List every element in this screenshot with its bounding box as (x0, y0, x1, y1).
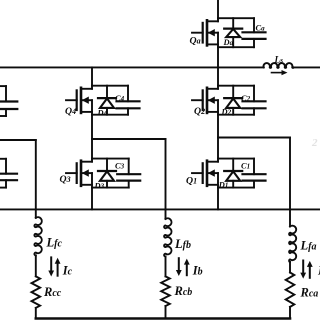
svg-text:Rcc: Rcc (43, 285, 62, 299)
wire cell Q1 top rail (218, 158, 254, 160)
svg-text:C1: C1 (241, 162, 250, 171)
wire Qa drain to top edge (217, 0, 219, 18)
current arrow Ib up (184, 259, 190, 276)
capacitor left lower (partial) (0, 159, 17, 188)
wire Lfb to Rcb (165, 257, 167, 277)
diode D4 (98, 86, 116, 115)
svg-text:Lfc: Lfc (46, 235, 63, 249)
wire left upper cell bottom rail (0, 115, 6, 117)
wire phase a (218, 138, 290, 227)
wire neutral rail (36, 317, 290, 320)
svg-text:Q1: Q1 (186, 175, 197, 186)
label D3 (94, 182, 105, 191)
label Q2 (194, 106, 205, 117)
svg-text:Q4: Q4 (65, 106, 76, 117)
svg-text:C3: C3 (115, 162, 125, 171)
svg-text:D1: D1 (218, 181, 229, 190)
wire left lower cell bottom rail (0, 187, 6, 189)
svg-text:Qa: Qa (190, 36, 201, 47)
svg-text:Lfa: Lfa (300, 238, 317, 252)
wire cell Qa bottom rail (218, 46, 254, 48)
wire top bus right (294, 66, 320, 68)
current arrow Ls (272, 70, 288, 75)
label D2 (221, 107, 232, 116)
label Qa (190, 36, 201, 47)
wire Lfc to Rcc (35, 255, 37, 276)
label Rcb (174, 284, 193, 298)
svg-text:Q2: Q2 (194, 106, 205, 117)
current arrow Ic up (55, 258, 61, 276)
wire Q3 source (91, 188, 93, 210)
transistor Q3 (66, 159, 92, 188)
svg-text:Lfb: Lfb (174, 237, 191, 251)
transistor Q2 (192, 86, 218, 115)
svg-text:Q3: Q3 (60, 174, 71, 185)
diode D1 (224, 159, 242, 188)
label Ia (clipped) (317, 264, 320, 278)
transistor Q4 (66, 86, 92, 115)
label Lfb (174, 237, 191, 251)
label Ic (62, 264, 73, 278)
wire leg a midpoint (217, 115, 219, 159)
svg-text:D2: D2 (221, 107, 232, 116)
current arrow Ia up (307, 261, 313, 278)
wire cell Q4 bottom rail (92, 114, 128, 116)
label C3 (115, 162, 125, 171)
label Ls (274, 54, 284, 64)
diode D2 (224, 86, 242, 115)
wire lower bus (0, 208, 320, 210)
wire cell Q4 top rail (92, 85, 128, 87)
wire cell Q2 bottom rail (218, 114, 254, 116)
resistor Rca (286, 273, 295, 307)
label Da (223, 38, 234, 47)
wire phase c (0, 140, 36, 218)
wire Rcb to neutral (165, 306, 167, 319)
svg-text:C2: C2 (241, 94, 251, 103)
transistor Q1 (192, 159, 218, 188)
wire Lfa to Rca (289, 262, 291, 273)
label Ib (192, 264, 203, 278)
wire left lower cell top rail (0, 158, 6, 160)
wire cell Q1 bottom rail (218, 187, 254, 189)
svg-text:Da: Da (223, 38, 234, 47)
wire left upper cell top rail (0, 85, 6, 87)
wire cell Qa top rail (218, 17, 254, 19)
inductor Lfc (34, 217, 41, 255)
svg-text:Rca: Rca (300, 286, 319, 300)
wire top bus left (0, 66, 264, 68)
svg-text:D4: D4 (97, 109, 108, 118)
inductor Ls (264, 63, 294, 68)
wire Q4 drain (91, 67, 93, 85)
wire cell Q2 top rail (218, 85, 254, 87)
wire Q1 source (217, 188, 219, 210)
resistor Rcc (32, 276, 41, 308)
faint clipped text at right edge (311, 137, 318, 149)
svg-text:D3: D3 (94, 182, 105, 191)
resistor Rcb (161, 276, 170, 306)
inductor Lfb (164, 218, 171, 256)
svg-text:C4: C4 (115, 94, 125, 103)
svg-text:Ls: Ls (274, 54, 284, 64)
wire phase b (92, 139, 166, 219)
capacitor C1 (243, 159, 266, 188)
capacitor Ca (243, 18, 266, 47)
current arrow Ic down (48, 257, 54, 276)
inductor Lfa (289, 226, 296, 262)
wire Rcc to neutral (35, 308, 37, 319)
label Rca (300, 286, 319, 300)
svg-text:Ic: Ic (62, 264, 73, 278)
wire cell Q3 top rail (92, 158, 129, 160)
label C1 (241, 162, 250, 171)
label Q4 (65, 106, 76, 117)
label Lfc (46, 235, 63, 249)
label C4 (115, 94, 125, 103)
label C2 (241, 94, 251, 103)
capacitor C2 (243, 86, 266, 115)
wire leg b midpoint (91, 115, 93, 159)
diode Da (224, 18, 242, 47)
label Lfa (300, 238, 317, 252)
wire cell Q3 bottom rail (92, 187, 129, 189)
svg-text:Ca: Ca (256, 24, 266, 33)
capacitor C4 (117, 86, 140, 115)
transistor Qa (192, 18, 218, 47)
svg-text:Ib: Ib (192, 264, 203, 278)
svg-text:Rcb: Rcb (174, 284, 193, 298)
svg-text:2: 2 (311, 137, 318, 149)
wire Rca to neutral (289, 307, 291, 319)
diode D3 (98, 159, 116, 188)
wire Qa source to Q2 drain (217, 47, 219, 85)
current arrow Ib down (176, 258, 182, 276)
label Q1 (186, 175, 197, 186)
label Rcc (43, 285, 62, 299)
capacitor C3 (117, 159, 140, 188)
label Q3 (60, 174, 71, 185)
label Ca (256, 24, 266, 33)
current arrow Ia down (300, 261, 306, 279)
label D4 (97, 109, 108, 118)
capacitor left upper (partial) (0, 86, 17, 116)
label D1 (218, 181, 229, 190)
